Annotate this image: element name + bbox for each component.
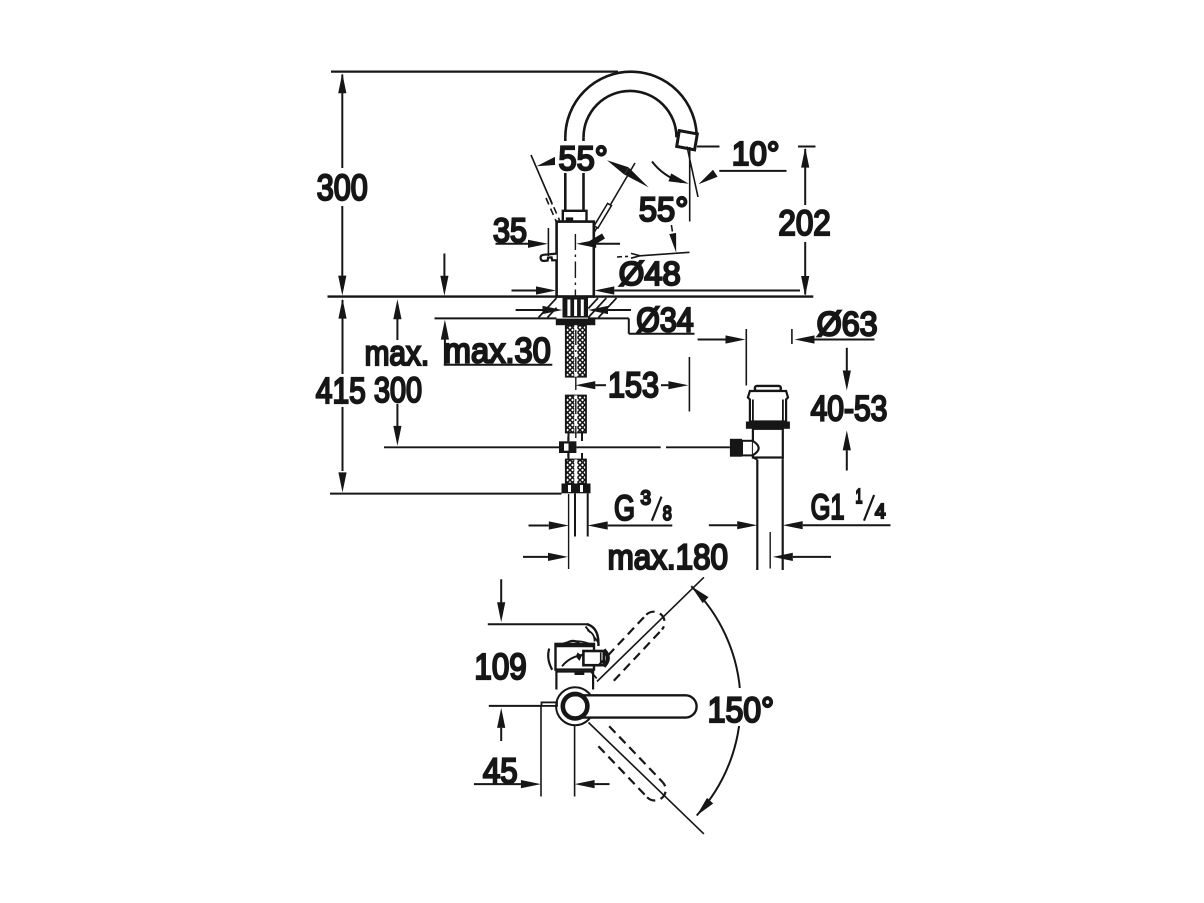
plan: socket divider xyxy=(600,653,602,664)
threaded shank segment 2 xyxy=(566,396,586,433)
lock nut xyxy=(562,484,591,494)
faucet body xyxy=(557,222,594,297)
55 right down arrow to leader xyxy=(671,225,672,232)
spout outer arc xyxy=(565,72,696,138)
35 extension line (lever front) xyxy=(547,228,549,256)
collar dark detail xyxy=(566,217,573,221)
dim max.30 upper arrow xyxy=(443,254,445,277)
drain body step xyxy=(753,458,757,460)
svg-text:Ø63: Ø63 xyxy=(817,306,878,344)
svg-text:max.180: max.180 xyxy=(608,538,728,577)
bowtie arrows on line B xyxy=(607,160,649,187)
svg-text:415: 415 xyxy=(316,370,366,411)
rod valve block xyxy=(730,439,742,457)
dim max.30 lower leader xyxy=(444,339,446,365)
lever-up dashed position (left) xyxy=(546,197,561,224)
svg-text:1: 1 xyxy=(856,486,863,508)
dim 300 arrows xyxy=(338,73,346,295)
svg-text:4: 4 xyxy=(875,501,886,523)
svg-text:300: 300 xyxy=(374,371,422,410)
plan: spout joint curve xyxy=(587,624,599,646)
drain center extension line xyxy=(769,532,771,569)
dim 300 vertical line xyxy=(341,75,343,277)
plan: back reference line (109 top) xyxy=(488,623,589,625)
stream 10deg line xyxy=(687,147,698,198)
body centerline xyxy=(574,234,576,296)
drain body xyxy=(753,429,783,458)
valve white fitting xyxy=(742,441,753,456)
shank centerline dash-dot xyxy=(575,330,577,438)
svg-text:max.: max. xyxy=(365,334,430,373)
svg-text:35: 35 xyxy=(493,212,527,250)
supply pipe below xyxy=(575,493,588,536)
aerator tip xyxy=(677,131,698,150)
plan: pivot reference line (109 bottom / 45 top) xyxy=(489,705,542,707)
dim G3/8 xyxy=(529,525,549,527)
svg-text:55°: 55° xyxy=(639,191,688,229)
handle bar xyxy=(564,695,697,717)
drain lift knob xyxy=(755,386,781,391)
svg-text:153: 153 xyxy=(608,366,659,405)
dashed lever upper xyxy=(598,612,665,681)
countertop line xyxy=(328,295,814,297)
pivot ring xyxy=(563,694,588,719)
angle side line lower xyxy=(589,723,704,834)
svg-text:55°: 55° xyxy=(559,140,608,178)
dim G1 1/4 xyxy=(709,524,737,526)
drain tailpipe xyxy=(757,460,782,570)
svg-text:45: 45 xyxy=(483,751,518,791)
svg-text:Ø48: Ø48 xyxy=(619,255,681,292)
lever stub raised right (hollow) xyxy=(594,203,611,228)
counter hatching xyxy=(539,298,617,318)
lever swing line B xyxy=(594,163,636,234)
plan: faucet body box xyxy=(556,644,595,670)
plan: left bulge arc xyxy=(548,649,552,670)
threaded shank segment 3 xyxy=(566,460,586,484)
dim O48 xyxy=(512,290,537,292)
plan: cartridge dome xyxy=(566,641,580,644)
counter underside line xyxy=(435,317,629,319)
svg-text:G: G xyxy=(614,489,635,528)
svg-text:40-53: 40-53 xyxy=(811,390,888,429)
svg-text:10°: 10° xyxy=(732,135,780,172)
plan: neck notch xyxy=(575,672,585,675)
plan: body bottom edge xyxy=(556,671,594,673)
mounting flange under counter xyxy=(556,319,596,326)
svg-text:109: 109 xyxy=(474,646,526,687)
bottom reference line of 415 xyxy=(330,493,562,495)
lever base black (tilted) xyxy=(590,234,606,247)
faucet collar xyxy=(563,211,587,222)
dim O63 xyxy=(698,339,726,341)
10deg leader with arrow xyxy=(719,170,786,172)
pivot outer circle xyxy=(556,687,594,725)
threaded shank segment 1 xyxy=(566,325,586,377)
pull-rod coupler block xyxy=(559,441,576,453)
drain flange cup xyxy=(748,391,788,422)
O63 extension lines xyxy=(745,329,747,386)
shank block in counter xyxy=(563,298,589,318)
svg-text:150°: 150° xyxy=(708,691,774,730)
plan: neck below body xyxy=(556,670,593,690)
label 55 left xyxy=(555,141,611,173)
lever (closed, pointing left) xyxy=(541,254,557,261)
dim 35 xyxy=(496,243,529,245)
valve socket curve xyxy=(753,441,759,455)
svg-text:3: 3 xyxy=(641,488,652,510)
svg-text:G1: G1 xyxy=(811,488,845,527)
dim 202 vertical line xyxy=(804,149,806,295)
dim 153 xyxy=(575,381,688,389)
angle side line upper xyxy=(597,577,704,681)
55 right arc with arrow xyxy=(652,162,682,183)
spout outlet level line xyxy=(697,146,816,148)
svg-text:8: 8 xyxy=(663,503,672,525)
plan: body top thick edge xyxy=(555,643,596,647)
55 left arrow at line A xyxy=(537,157,557,166)
drain seal ring xyxy=(746,422,790,429)
coupler pin xyxy=(567,437,569,442)
45 extension lines xyxy=(540,706,542,797)
plan: socket end cap xyxy=(604,650,608,667)
dim 40-53 xyxy=(846,348,848,371)
dim max.300 arrows xyxy=(393,299,401,446)
label 150deg xyxy=(703,688,777,726)
aerator vertical reference line xyxy=(689,147,691,222)
lever swing line A xyxy=(531,155,552,205)
plan: inner swoosh xyxy=(562,655,583,666)
dim max.300 vertical line xyxy=(396,319,398,427)
plan: lever socket xyxy=(583,651,603,665)
svg-text:300: 300 xyxy=(317,167,368,208)
dim 202 arrows xyxy=(801,148,809,296)
dim 109 arrows xyxy=(500,579,502,603)
svg-text:202: 202 xyxy=(778,204,830,243)
plan: spout hidden dashes xyxy=(586,627,600,682)
O48 leader xyxy=(617,252,690,258)
top reference line (spout height) xyxy=(331,70,618,72)
dim 45 xyxy=(474,783,521,785)
dim max.180 xyxy=(523,556,548,558)
dim O34 xyxy=(516,309,543,311)
shank centerline white gap xyxy=(574,325,577,483)
dim 415 arrows xyxy=(338,299,346,493)
extension line at faucet left xyxy=(568,494,570,569)
150 arc xyxy=(691,586,740,815)
spout inner arc xyxy=(584,91,677,138)
spout left pipe xyxy=(565,137,583,210)
plan: dark wedge detail xyxy=(576,653,582,662)
dim 415 vertical line xyxy=(342,300,344,471)
pop-up rod (horizontal) xyxy=(384,446,730,448)
flange inner lines xyxy=(753,400,783,422)
small tab at line end xyxy=(542,702,558,706)
neck between threads and coupler xyxy=(569,433,583,460)
dashed lever lower xyxy=(598,726,665,800)
